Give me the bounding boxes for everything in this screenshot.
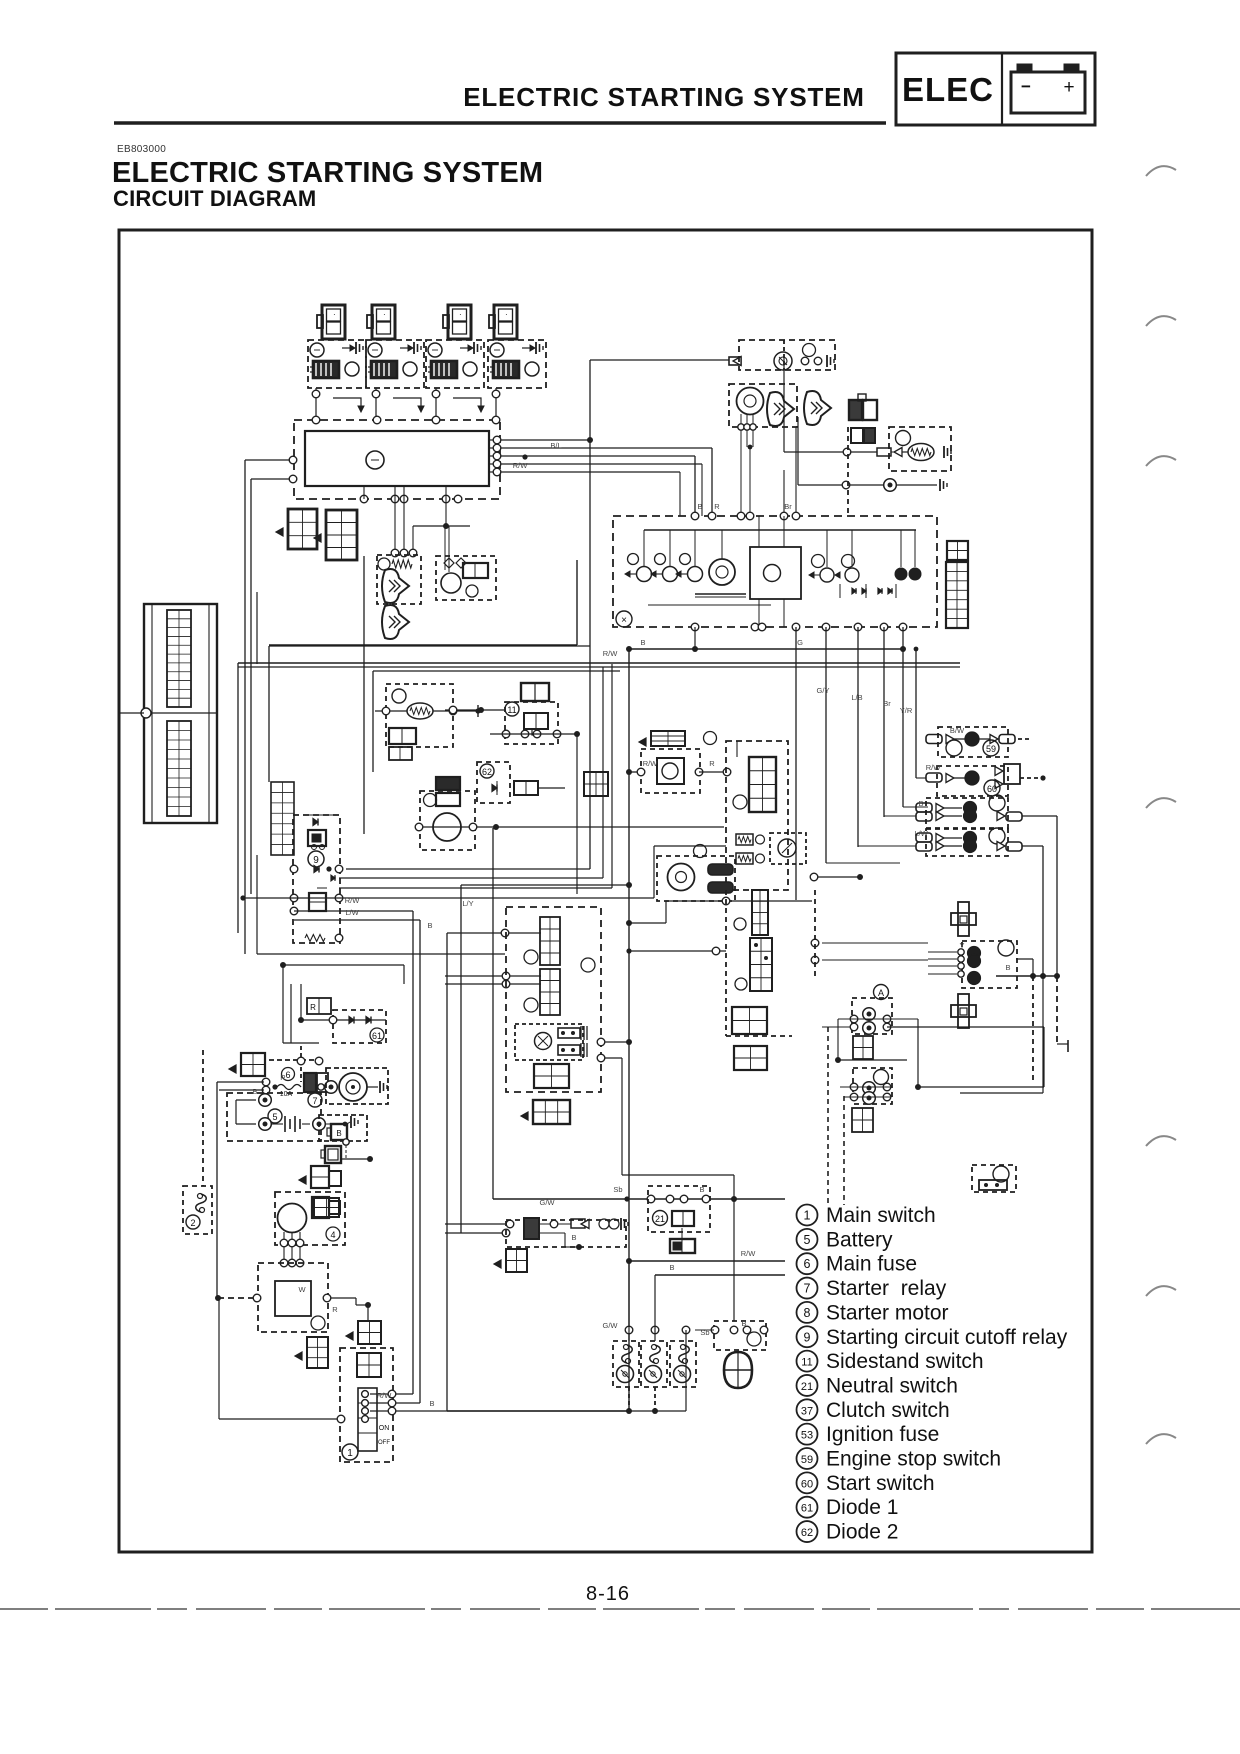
- svg-text:7: 7: [804, 1282, 811, 1296]
- svg-text:L/Y: L/Y: [462, 899, 473, 908]
- svg-text:G/W: G/W: [540, 1198, 556, 1207]
- svg-text:Y/R: Y/R: [900, 706, 913, 715]
- svg-text:1: 1: [804, 1209, 811, 1223]
- svg-text:Diode 2: Diode 2: [826, 1521, 898, 1544]
- svg-text:Main fuse: Main fuse: [826, 1253, 917, 1276]
- svg-text:·: ·: [333, 310, 336, 319]
- svg-text:59: 59: [986, 744, 996, 754]
- svg-text:OFF: OFF: [378, 1440, 390, 1446]
- svg-text:1: 1: [347, 1448, 353, 1459]
- svg-text:EB803000: EB803000: [117, 144, 166, 155]
- svg-text:·: ·: [505, 310, 508, 319]
- svg-text:R/W: R/W: [926, 763, 942, 772]
- svg-text:60: 60: [987, 784, 997, 794]
- svg-text:9: 9: [804, 1330, 811, 1344]
- svg-text:Y: Y: [959, 941, 964, 950]
- svg-text:·: ·: [459, 310, 462, 319]
- svg-text:Main switch: Main switch: [826, 1204, 936, 1227]
- svg-text:B/W: B/W: [950, 726, 965, 735]
- svg-text:B: B: [640, 638, 645, 647]
- svg-text:Diode 1: Diode 1: [826, 1496, 898, 1519]
- svg-text:R: R: [709, 759, 715, 768]
- svg-text:ELECTRIC STARTING SYSTEM: ELECTRIC STARTING SYSTEM: [463, 82, 865, 112]
- svg-text:B: B: [699, 1185, 704, 1194]
- svg-text:R/W: R/W: [603, 649, 619, 658]
- svg-text:53: 53: [801, 1430, 813, 1442]
- svg-text:Starting circuit cutoff relay: Starting circuit cutoff relay: [826, 1326, 1068, 1349]
- svg-text:Neutral switch: Neutral switch: [826, 1374, 958, 1397]
- svg-text:A: A: [878, 988, 884, 998]
- svg-text:11: 11: [507, 705, 516, 715]
- svg-text:11: 11: [801, 1357, 812, 1369]
- svg-text:7: 7: [312, 1096, 317, 1106]
- svg-text:R: R: [280, 1073, 286, 1082]
- svg-text:R/W: R/W: [377, 1391, 393, 1400]
- svg-text:B/L: B/L: [550, 441, 561, 450]
- svg-text:B: B: [427, 921, 432, 930]
- svg-text:59: 59: [801, 1454, 813, 1466]
- svg-text:R: R: [332, 1305, 338, 1314]
- svg-text:Sb: Sb: [700, 1328, 709, 1337]
- svg-text:L/W: L/W: [345, 908, 359, 917]
- svg-text:R/W: R/W: [345, 896, 361, 905]
- svg-text:R: R: [310, 1003, 316, 1012]
- svg-text:Clutch switch: Clutch switch: [826, 1399, 950, 1422]
- svg-text:Br: Br: [883, 699, 891, 708]
- svg-text:B: B: [429, 1399, 434, 1408]
- svg-text:R/W: R/W: [513, 461, 529, 470]
- svg-text:R/W: R/W: [643, 759, 659, 768]
- svg-text:CIRCUIT DIAGRAM: CIRCUIT DIAGRAM: [113, 186, 316, 211]
- svg-text:Engine stop switch: Engine stop switch: [826, 1448, 1001, 1471]
- svg-text:R: R: [714, 502, 720, 511]
- svg-text:×: ×: [621, 615, 627, 626]
- svg-text:L/W: L/W: [914, 829, 928, 838]
- svg-text:Starter relay: Starter relay: [826, 1277, 947, 1300]
- svg-text:Ignition fuse: Ignition fuse: [826, 1423, 939, 1446]
- svg-text:37: 37: [801, 1405, 813, 1417]
- svg-text:62: 62: [482, 767, 492, 777]
- svg-text:4: 4: [330, 1230, 335, 1240]
- svg-text:·: ·: [383, 310, 386, 319]
- svg-text:61: 61: [801, 1503, 813, 1515]
- svg-text:61: 61: [372, 1031, 382, 1041]
- svg-text:Starter motor: Starter motor: [826, 1301, 949, 1324]
- svg-text:6: 6: [804, 1257, 811, 1271]
- svg-text:G/Y: G/Y: [817, 686, 830, 695]
- svg-text:5: 5: [804, 1233, 811, 1247]
- svg-text:6: 6: [285, 1070, 290, 1080]
- svg-text:62: 62: [801, 1527, 813, 1539]
- svg-text:G: G: [797, 638, 803, 647]
- svg-text:G/W: G/W: [603, 1321, 619, 1330]
- svg-text:−: −: [1021, 77, 1031, 96]
- svg-text:B: B: [336, 1129, 341, 1138]
- svg-text:B: B: [252, 1087, 257, 1096]
- svg-text:ON: ON: [379, 1425, 390, 1432]
- svg-text:Sidestand switch: Sidestand switch: [826, 1350, 984, 1373]
- svg-text:B: B: [918, 799, 923, 808]
- svg-text:Br: Br: [784, 502, 792, 511]
- svg-text:60: 60: [801, 1478, 813, 1490]
- svg-text:Sb: Sb: [613, 1185, 622, 1194]
- svg-text:B: B: [741, 1319, 746, 1328]
- svg-text:10A: 10A: [280, 1091, 293, 1098]
- svg-text:+: +: [1063, 77, 1074, 98]
- svg-text:Battery: Battery: [826, 1228, 893, 1251]
- svg-text:21: 21: [655, 1214, 665, 1224]
- svg-text:8: 8: [804, 1306, 811, 1320]
- svg-text:5: 5: [272, 1112, 277, 1122]
- svg-text:ELEC: ELEC: [902, 71, 994, 108]
- svg-text:9: 9: [313, 855, 319, 866]
- svg-text:R/W: R/W: [741, 1249, 757, 1258]
- svg-text:B: B: [1005, 963, 1010, 972]
- svg-text:Start switch: Start switch: [826, 1472, 935, 1495]
- svg-text:L/B: L/B: [851, 693, 862, 702]
- svg-text:B: B: [697, 502, 702, 511]
- svg-text:21: 21: [801, 1381, 813, 1393]
- svg-text:ELECTRIC STARTING SYSTEM: ELECTRIC STARTING SYSTEM: [112, 157, 543, 189]
- svg-text:B: B: [669, 1263, 674, 1272]
- svg-text:B: B: [571, 1233, 576, 1242]
- svg-text:8-16: 8-16: [586, 1583, 630, 1605]
- svg-text:2: 2: [190, 1218, 195, 1228]
- svg-text:W: W: [298, 1285, 306, 1294]
